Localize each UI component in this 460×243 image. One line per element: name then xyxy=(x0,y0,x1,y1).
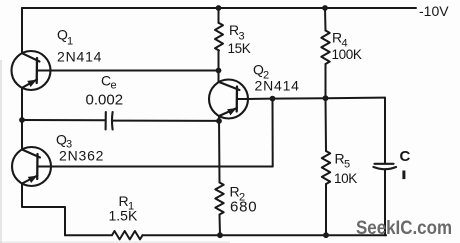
wire node C down to Q3 base corner xyxy=(272,99,274,167)
wire Q2 emitter to node B to R2 xyxy=(218,116,221,183)
transistor Q1 xyxy=(12,51,51,90)
svg-text:680: 680 xyxy=(230,199,257,216)
node dot rail/R4 xyxy=(322,5,328,11)
resistor R4 xyxy=(321,31,329,65)
wire left column top (Q1 collector to rail) xyxy=(21,8,23,53)
svg-text:1.5K: 1.5K xyxy=(109,208,138,224)
label 1 (capacitor value) xyxy=(402,171,405,180)
scan artifact bottom edge xyxy=(0,242,230,243)
wire Q3 base to corner xyxy=(51,166,273,168)
transistor Q2 xyxy=(209,80,248,119)
wire node D to R5 xyxy=(325,98,328,151)
resistor R2 xyxy=(215,183,223,215)
node dot B: Q2 emitter / Ce right xyxy=(216,118,222,124)
wire mid column top (rail to R3) xyxy=(218,8,220,23)
resistor R3 xyxy=(215,23,223,51)
svg-text:15K: 15K xyxy=(228,41,251,56)
wire capacitor C bottom lead xyxy=(385,170,386,235)
svg-text:10K: 10K xyxy=(334,171,357,186)
node dot R2 / bottom rail xyxy=(217,232,223,238)
wire Q2 base line to nodes C and D xyxy=(248,98,385,99)
capacitor Ce plates xyxy=(106,112,113,130)
resistor R1 xyxy=(112,231,143,239)
node dot R5 / bottom rail xyxy=(323,232,329,238)
wire Ce left (left column to capacitor) xyxy=(22,119,105,121)
svg-text:0.002: 0.002 xyxy=(86,92,124,109)
resistor R5 xyxy=(322,151,330,184)
wire top -10V supply rail xyxy=(22,7,416,9)
node dot D: Q2 base / R4-R5 xyxy=(323,95,329,101)
svg-text:C: C xyxy=(400,148,411,165)
svg-text:100K: 100K xyxy=(332,47,362,62)
svg-text:SeekIC.com: SeekIC.com xyxy=(356,217,452,239)
capacitor C plates xyxy=(374,164,397,169)
wire capacitor C top lead xyxy=(384,98,386,163)
node dot rail/R3 xyxy=(216,5,222,11)
svg-text:e: e xyxy=(111,80,117,92)
transistor Q3 xyxy=(12,147,51,186)
wire R2 bottom to bottom rail xyxy=(219,215,222,236)
svg-text:1: 1 xyxy=(67,36,73,48)
wire Ce right (capacitor to node B) xyxy=(113,120,219,122)
node dot Ce left on left column xyxy=(19,117,25,123)
wire Q1 base to node A xyxy=(51,70,219,72)
svg-text:5: 5 xyxy=(344,159,350,171)
wire bottom rail left of R1 xyxy=(65,234,112,236)
wire R3 bottom to node A to Q2 collector xyxy=(218,51,220,83)
svg-text:2N414: 2N414 xyxy=(57,49,102,65)
wire right column rail to R4 xyxy=(324,8,327,31)
node dot A: Q1 base / R3 bottom xyxy=(216,68,222,74)
svg-text:2N362: 2N362 xyxy=(59,148,104,164)
svg-text:2N414: 2N414 xyxy=(255,78,300,94)
wire Q3 emitter step to bottom rail xyxy=(22,184,65,236)
wire R5 bottom to bottom rail xyxy=(325,184,327,235)
svg-text:-10V: -10V xyxy=(419,3,449,19)
node dot C: Q2 base / Q3 base riser xyxy=(270,96,276,102)
wire bottom rail right of R1 xyxy=(143,234,387,236)
wire left column mid (Q1 emitter to Q3 collector) xyxy=(21,88,23,150)
scan artifact left edge xyxy=(0,60,1,243)
wire R4 bottom to node D xyxy=(325,64,327,98)
